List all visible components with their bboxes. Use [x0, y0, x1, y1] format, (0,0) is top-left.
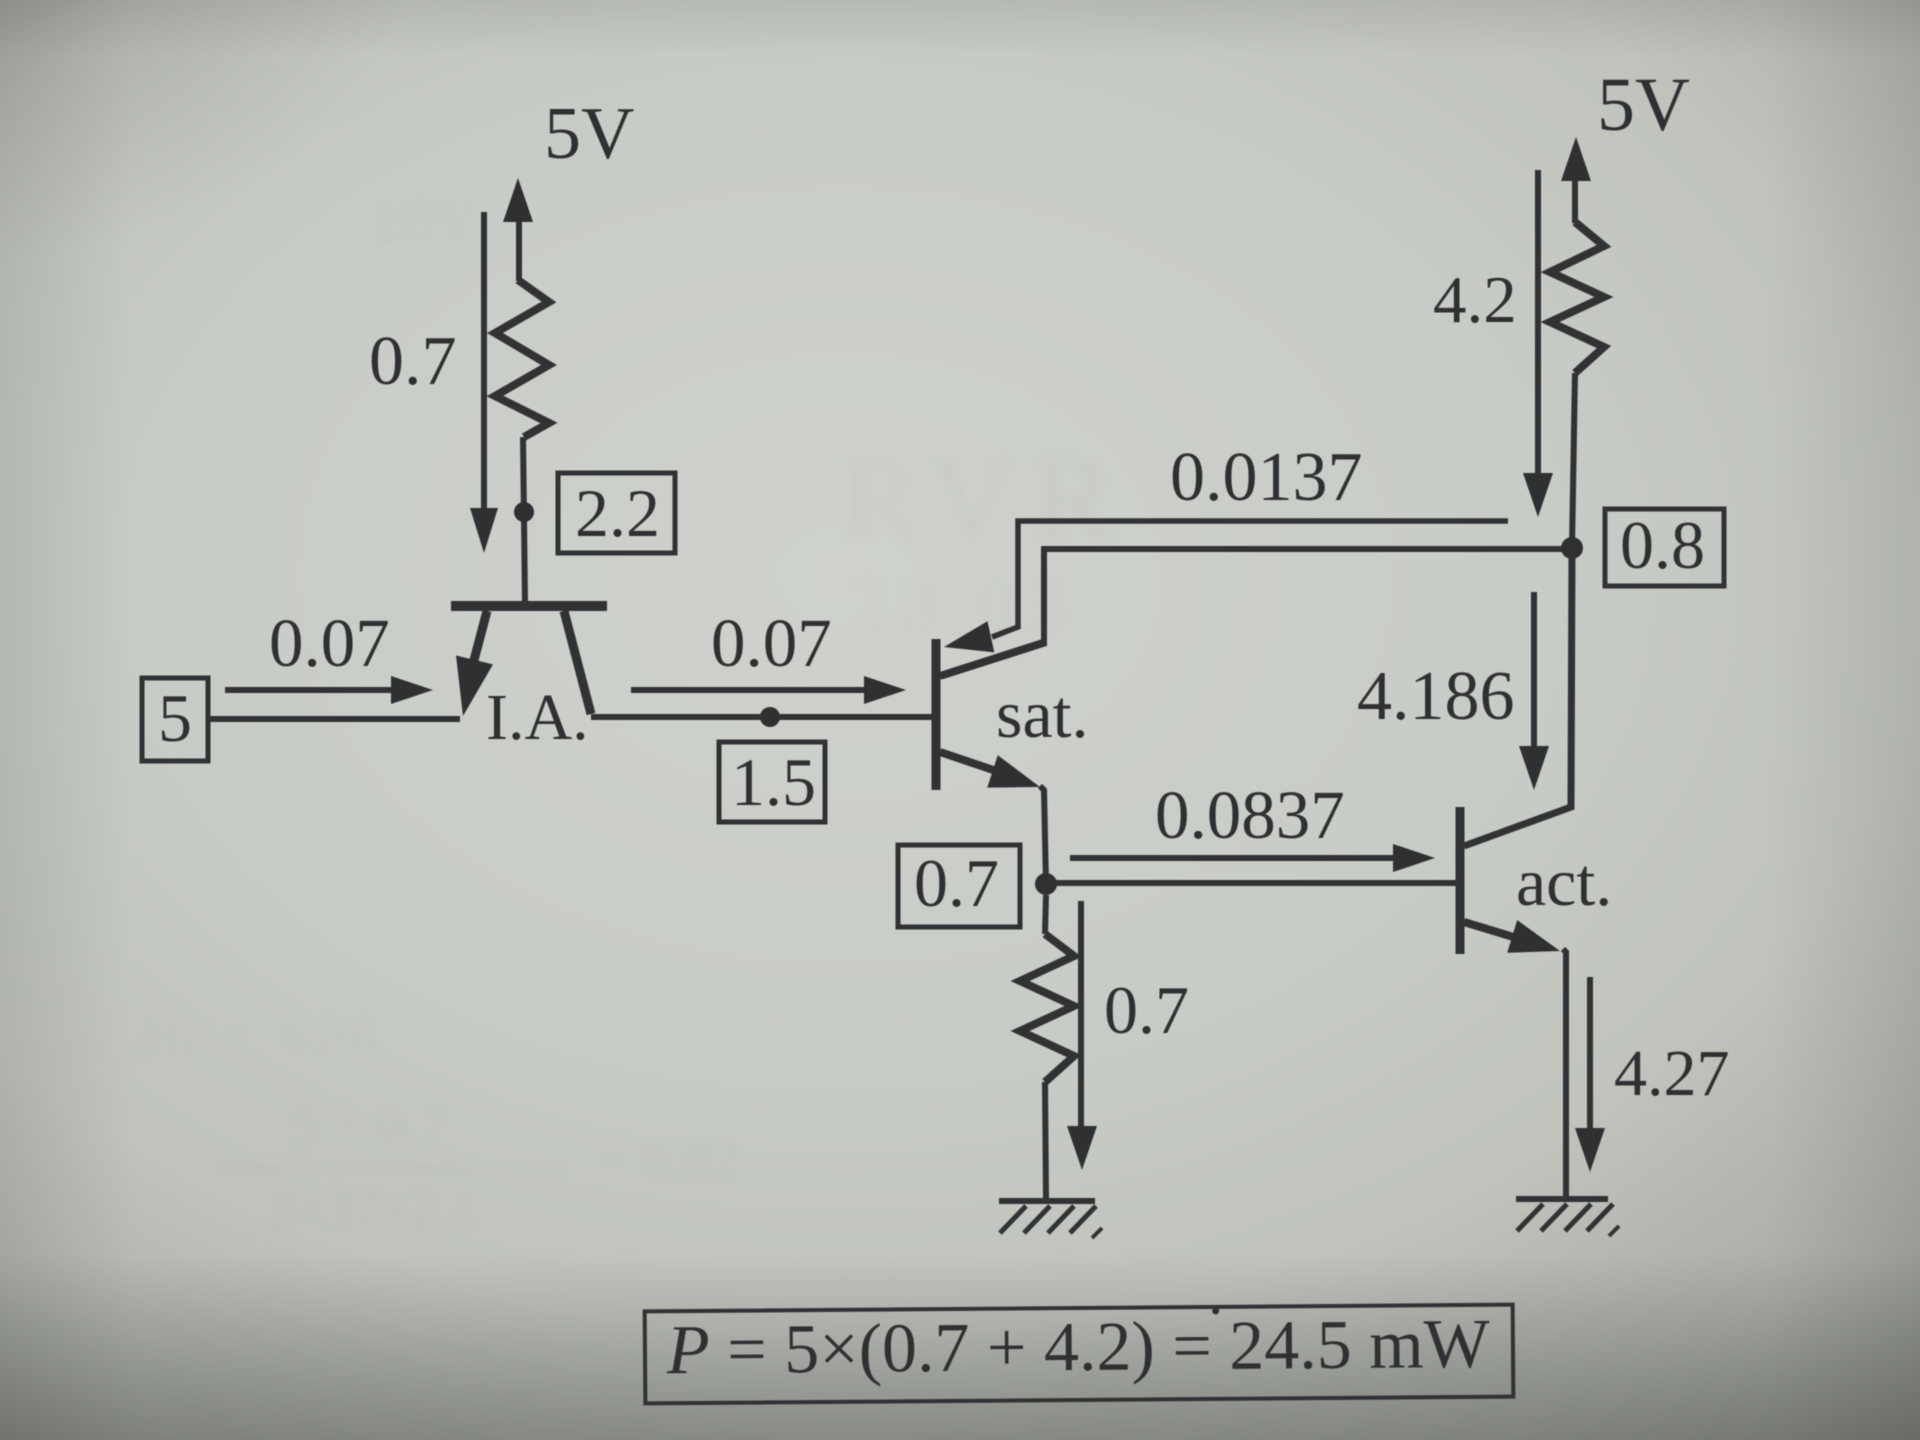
svg-text:4.2: 4.2 [1433, 263, 1517, 337]
wire Q2 emitter down to node 0.7 [1040, 786, 1046, 884]
current arrow 0.0137 (into Q2 collector) [944, 521, 1508, 652]
boxed node-voltage label 0.8 [1605, 507, 1724, 586]
mode label I.A. [486, 681, 589, 754]
svg-text:0.7: 0.7 [1104, 972, 1189, 1048]
resistor R1 value 0.7 (left pull-up) [495, 280, 549, 602]
value label 0.07 (input) [269, 605, 390, 681]
power rail 5V (left) label [544, 93, 634, 175]
svg-text:0.0837: 0.0837 [1155, 777, 1345, 853]
power arrow to 5V (left) [503, 178, 533, 281]
wire Q2 collector up to node 0.8 [1044, 549, 1569, 646]
svg-text:0.07: 0.07 [269, 605, 390, 681]
svg-text:4.186: 4.186 [1357, 658, 1515, 735]
current arrow 0.07 (input) [225, 676, 433, 704]
transistor Q1 (inverse-active) [451, 606, 607, 716]
value label 0.0137 [1170, 439, 1363, 516]
mode label sat. [996, 676, 1089, 752]
svg-text:0.7: 0.7 [369, 323, 457, 400]
svg-text:P = 5×(0.7 + 4.2) = 24.5 mW: P = 5×(0.7 + 4.2) = 24.5 mW [666, 1306, 1490, 1389]
wire Q3 emitter down to ground [1563, 949, 1566, 1197]
svg-text:5V: 5V [544, 93, 634, 175]
wire node 0.8 down to Q3 collector [1464, 548, 1572, 846]
value label 4.27 [1614, 1037, 1730, 1110]
resistor R2 value 4.2 (right pull-up) [1550, 222, 1604, 548]
svg-text:5V: 5V [1597, 63, 1690, 147]
current arrow 4.27 (emitter of Q3) [1575, 977, 1605, 1172]
power arrow to 5V (right) [1561, 137, 1591, 223]
value label 0.07 (base of Q2) [711, 605, 832, 681]
node 1.5 junction dot [760, 707, 780, 727]
power equation box P = 5×(0.7+4.2) = 24.5 mW [645, 1305, 1514, 1404]
transistor Q2 (saturated) [936, 639, 1046, 790]
node 2.2 junction dot [514, 502, 534, 522]
svg-text:0.07: 0.07 [711, 605, 832, 681]
value label 0.7 (through R3) [1104, 972, 1189, 1048]
current arrow 0.07 (base of Q2) [631, 676, 906, 704]
boxed node-voltage label 2.2 [558, 473, 675, 553]
current arrow 0.7 (through R3) [1067, 901, 1097, 1170]
wire node 0.7 to Q3 base [1046, 880, 1459, 886]
svg-text:0.8: 0.8 [1620, 507, 1705, 583]
svg-text:4.27: 4.27 [1614, 1037, 1730, 1110]
wire from source 5 to Q1 emitter [208, 716, 460, 722]
svg-text:sat.: sat. [996, 676, 1089, 752]
boxed node-voltage label 0.7 [898, 845, 1020, 927]
svg-text:1.5: 1.5 [731, 744, 816, 820]
svg-text:0.0137: 0.0137 [1170, 439, 1363, 516]
current arrow 4.2 [1523, 170, 1553, 517]
svg-text:5: 5 [158, 680, 192, 756]
current arrow 0.0837 (base of Q3) [1070, 844, 1435, 872]
resistor R3 value 0.7 (emitter resistor) [1020, 895, 1074, 1199]
svg-text:2.2: 2.2 [575, 475, 660, 551]
boxed node-voltage label 1.5 [719, 742, 825, 822]
boxed source label 5 [142, 678, 208, 761]
power rail 5V (right) label [1597, 63, 1690, 147]
svg-text:I.A.: I.A. [486, 681, 589, 754]
ground symbol (right) [1516, 1199, 1619, 1236]
transistor Q3 (active) [1460, 807, 1560, 954]
ground symbol (left) [999, 1201, 1102, 1238]
node 0.7 junction dot [1035, 873, 1057, 895]
current arrow 4.186 (into Q3 collector) [1519, 592, 1549, 790]
svg-text:0.7: 0.7 [914, 845, 999, 921]
wire Q1 collector to Q2 base [591, 714, 934, 720]
faint page bleed-through ghosts [370, 185, 480, 259]
svg-text:act.: act. [1516, 844, 1612, 920]
value label 4.186 [1357, 658, 1515, 735]
current arrow 0.7 (left) [470, 212, 498, 553]
value label 0.7 (left) [369, 323, 457, 400]
mode label act. [1516, 844, 1612, 920]
value label 0.0837 [1155, 777, 1345, 853]
value label 4.2 [1433, 263, 1517, 337]
node 0.8 junction dot [1561, 537, 1583, 559]
